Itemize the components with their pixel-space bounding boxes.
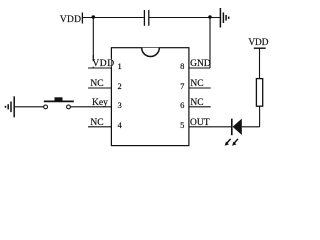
svg-text:NC: NC xyxy=(90,118,103,128)
push button switch SW (Key) left terminal xyxy=(44,105,48,109)
wire: top rail from capacitor to ground xyxy=(149,17,219,19)
LED D1 triangle (anode, pointing left) xyxy=(233,119,242,135)
resistor R1 body xyxy=(256,79,262,107)
svg-text:GND: GND xyxy=(190,59,211,69)
LED D1 emission arrow 1 xyxy=(225,139,231,146)
pin 1 stub (VDD) xyxy=(88,67,111,69)
LED D1 emission arrow 2 xyxy=(232,139,238,146)
wire: LED anode to corner xyxy=(242,126,260,128)
svg-text:VDD: VDD xyxy=(60,15,81,25)
svg-text:NC: NC xyxy=(90,79,103,89)
pin 7 stub (NC) xyxy=(189,87,211,89)
wire: drop from rail to pin 8 (GND) xyxy=(209,18,211,69)
power port VDD (top-left) bar xyxy=(81,13,83,24)
IC U1 body xyxy=(111,48,188,146)
wire: visible tail of drop above label xyxy=(92,55,94,61)
svg-text:7: 7 xyxy=(180,81,184,91)
wire: top rail from VDD bar to capacitor xyxy=(82,17,143,19)
junction node at VDD rail / pin1 drop xyxy=(92,15,96,19)
wire: resistor top to VDD bar xyxy=(259,48,261,78)
svg-text:OUT: OUT xyxy=(190,118,210,128)
pin 2 stub (NC) xyxy=(88,87,111,89)
junction node at rail / pin8 drop xyxy=(208,15,212,19)
svg-text:3: 3 xyxy=(118,100,122,110)
svg-text:NC: NC xyxy=(190,79,203,89)
wire: corner up to resistor bottom xyxy=(259,106,261,127)
push button actuator bar xyxy=(44,100,74,102)
capacitor C1 (decoupling, on top rail) xyxy=(144,10,148,26)
pin 5 stub / wire OUT to LED cathode xyxy=(189,126,232,128)
wire: left ground to switch left terminal xyxy=(14,106,44,108)
push button cap xyxy=(55,97,63,100)
pin 6 stub (NC) xyxy=(189,106,211,108)
pin 3 stub / wire to key switch xyxy=(70,106,111,108)
svg-text:Key: Key xyxy=(92,98,108,108)
wire: drop from rail to pin 1 (VDD) xyxy=(92,18,94,69)
svg-text:2: 2 xyxy=(118,81,122,91)
IC U1 notch xyxy=(142,48,160,57)
ground (top-right, earth bars) xyxy=(220,8,228,28)
svg-text:8: 8 xyxy=(180,61,184,71)
pin 1 name VDD (white backing over drop wire) xyxy=(92,59,111,67)
LED D1 cathode bar xyxy=(231,119,233,136)
svg-text:NC: NC xyxy=(190,98,203,108)
push button switch SW (Key) right terminal xyxy=(67,105,71,109)
ground (left, earth bars) xyxy=(6,96,15,117)
svg-text:5: 5 xyxy=(180,120,184,130)
svg-text:1: 1 xyxy=(118,61,122,71)
power port VDD (right) bar xyxy=(254,47,266,49)
svg-text:VDD: VDD xyxy=(248,38,268,48)
svg-text:6: 6 xyxy=(180,100,184,110)
pin 4 stub (NC) xyxy=(88,126,111,128)
svg-text:VDD: VDD xyxy=(92,59,114,69)
pin 8 stub (GND) xyxy=(189,67,210,69)
